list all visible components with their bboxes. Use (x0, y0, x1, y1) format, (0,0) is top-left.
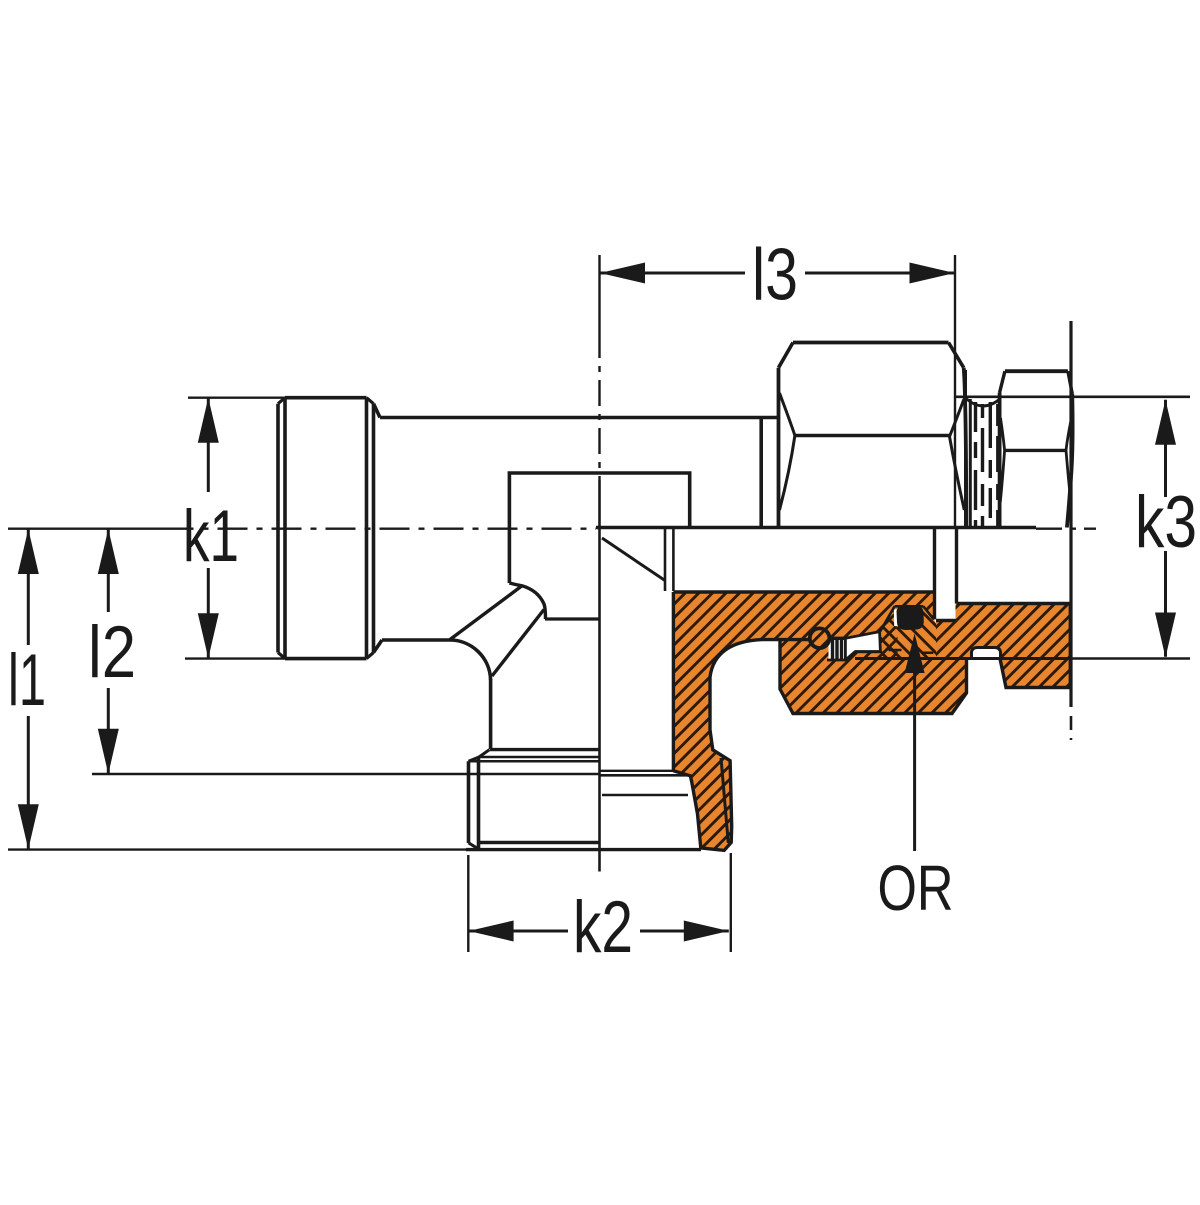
dimension l2 line (107, 529, 110, 774)
section: mating stud with o-ring (cut, opposite hatch) (881, 606, 936, 658)
body end face / washer (759, 418, 763, 528)
ORANGE SECTIONS (673, 592, 1070, 850)
hex sliver divider on leg wall (721, 758, 728, 843)
inner cone right of centerline (602, 538, 665, 581)
orange outlines: band+wall (673, 592, 934, 850)
svg-text:k3: k3 (1135, 482, 1197, 563)
dimension k2 line (469, 930, 729, 933)
svg-text:OR: OR (878, 852, 954, 924)
DIMENSIONS (28, 273, 1165, 952)
centerline vertical of branch leg (x=599.5) (598, 255, 600, 332)
small stud edges near o-ring (889, 650, 934, 653)
section: banjo body upper band + leg wall (cut) (673, 592, 934, 850)
section: right block / port body (cut) (936, 604, 1070, 688)
bottom hex k2 top face edges (490, 748, 600, 751)
svg-text:l2: l2 (88, 612, 136, 693)
o-ring groove clearance (white) (894, 609, 901, 627)
clamped tube stub (vertical hatch) (827, 638, 845, 660)
lower block outline (780, 638, 967, 713)
dimension k1 line (207, 398, 210, 659)
white gap band edges beside banjo eye (935, 528, 957, 620)
male stud hex k1 (left plug head) (278, 398, 374, 659)
tube end face (1069, 321, 1072, 707)
OR leader line (913, 640, 916, 851)
bore top line (section edge) (596, 526, 1036, 529)
arrowheads (600, 263, 645, 284)
svg-text:l3: l3 (752, 235, 798, 316)
svg-text:l1: l1 (8, 640, 46, 721)
o-ring OR (black) (897, 605, 924, 630)
locknut chamfer base / k3 top extension (955, 395, 1190, 398)
section: banjo body lower block (cut) (780, 640, 967, 714)
k2 extension lines (468, 853, 731, 952)
sealing cone insert (white) (845, 632, 880, 660)
center block (509, 473, 689, 583)
swivel nut (793, 341, 949, 345)
block fillet into leg (509, 583, 545, 619)
right block outline (936, 604, 1070, 688)
centerline horizontal (dash-dot) (8, 528, 164, 530)
body cylinder top/bottom (374, 404, 779, 418)
svg-text:k1: k1 (183, 496, 239, 577)
leg outer edge left (489, 679, 493, 749)
leg bore female thread section lines (600, 770, 675, 772)
ball end of swivel joint (cut) (810, 628, 830, 648)
svg-text:k2: k2 (573, 887, 633, 968)
stud face line / k3 bottom extension (855, 657, 1071, 660)
thread between nuts (964, 370, 967, 528)
counterbore step (545, 617, 599, 620)
locknut (1005, 369, 1068, 373)
k1 extension lines (185, 398, 285, 659)
dimension l3 line (600, 272, 955, 275)
l3 right extension (954, 255, 956, 528)
trumpet fillet body-to-leg (449, 640, 491, 680)
dimension l1 line (27, 529, 30, 849)
dimension k3 line (1164, 400, 1167, 657)
cone tangent edges of trumpet (450, 586, 522, 640)
bottom hex k2 body (469, 757, 479, 850)
